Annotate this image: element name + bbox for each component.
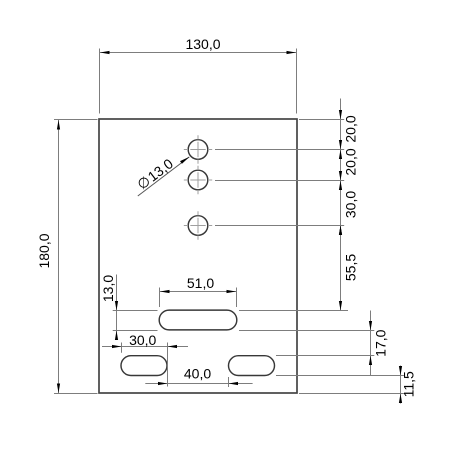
dimension 51,0 (slot S1 length) arrow left [160,290,170,293]
hole H3 center mark [184,211,212,239]
dimension 13,0 (slot S1 height) line [116,275,118,339]
slot S2 (bottom left slot) [121,356,167,376]
svg-text:130,0: 130,0 [185,36,220,52]
dimension 180,0 extension line bottom [54,393,98,395]
dimension 30,0 (slot S2 length) arrow left [112,345,122,348]
right chain extension line from slot S1 top [239,310,348,312]
svg-text:30,0: 30,0 [129,332,156,348]
hole H1 [188,140,208,160]
dimension 180,0 line [58,120,60,394]
svg-text:20,0: 20,0 [343,148,359,175]
dimension 20,0 (H1 to H2) arrow lower [339,181,342,191]
hole H2 [188,170,208,190]
svg-text:17,0: 17,0 [373,329,389,356]
dimension 20,0 (top edge to H1) arrow lower [339,150,342,160]
dimension 40,0 (gap S2 to S3) extension line right [228,377,230,387]
dimension 180,0 arrow top [57,120,60,130]
dimension 30,0 (H2 to H3) arrow upper [339,171,342,181]
dimension 30,0 (slot S2 length) arrow right [168,345,178,348]
dimension 180,0 extension line top [54,119,98,121]
dimension 20,0 (H1 to H2) arrow upper [339,140,342,150]
leader diameter 13,0 arrow [180,157,189,164]
svg-text:40,0: 40,0 [184,366,211,382]
svg-text:11,5: 11,5 [401,371,417,397]
dimension 130,0 arrow left [100,51,110,54]
hole H2 center mark [184,166,212,194]
dimension 17,0 (S1 bottom to S3 top) arrow lower [369,356,372,366]
right chain extension line from hole H1 [215,149,344,151]
dimension 40,0 (gap S2 to S3) line [145,383,252,385]
right chain extension line from plate top edge [299,119,344,121]
dimension 130,0 arrow right [287,51,297,54]
right chain extension line from hole H3 [215,225,344,227]
dimension 51,0 (slot S1 length) arrow right [227,290,237,293]
dimension 30,0 (slot S2 length) extension line right (shared with 40,0) [167,343,169,387]
dimension 40,0 (gap S2 to S3) arrow right [229,382,239,385]
dimension 13,0 (slot S1 height) extension line bottom [113,330,158,332]
dimension 51,0 (slot S1 length) extension line left [159,288,161,308]
dimension 11,5 (S3 bottom to plate bottom) extension line upper [276,375,404,377]
slot S1 (large center slot) [159,310,237,330]
right chain dimension line [340,99,342,311]
leader diameter 13,0 line [138,157,190,196]
dimension 51,0 (slot S1 length) extension line right [236,288,238,308]
right chain extension line from hole H2 [215,180,344,182]
dimension 13,0 (slot S1 height) arrow upper [115,301,118,311]
dimension 17,0 (S1 bottom to S3 top) extension line lower [276,355,374,357]
dimension 11,5 (S3 bottom to plate bottom) line [400,366,402,404]
dimension 130,0 line [100,52,297,54]
dimension 130,0 extension line left [99,49,101,114]
svg-text:51,0: 51,0 [187,275,214,291]
svg-text:180,0: 180,0 [36,233,52,268]
dimension 30,0 (slot S2 length) line [102,346,188,348]
dimension 17,0 (S1 bottom to S3 top) line [370,311,372,376]
hole H3 [188,216,208,236]
dimension 55,5 (H3 to slot S1 top) arrow lower [339,301,342,311]
dimension 11,5 (S3 bottom to plate bottom) arrow upper [399,366,402,376]
dimension 13,0 (slot S1 height) extension line top [113,310,158,312]
dimension 51,0 (slot S1 length) line [160,291,237,293]
dimension 30,0 (H2 to H3) arrow lower [339,226,342,236]
dimension 130,0 extension line right [296,49,298,114]
slot S3 (bottom right slot) [229,356,275,376]
dimension 11,5 (S3 bottom to plate bottom) extension line lower [299,393,404,395]
svg-text:30,0: 30,0 [343,191,359,218]
plate outline [99,119,297,393]
hole H1 center mark [184,135,212,163]
dimension 17,0 (S1 bottom to S3 top) extension line upper [239,330,374,332]
dimension 55,5 (H3 to slot S1 top) arrow upper [339,226,342,236]
dimension 17,0 (S1 bottom to S3 top) arrow upper [369,321,372,331]
dimension 40,0 (gap S2 to S3) arrow left [158,382,168,385]
dimension 30,0 (slot S2 length) extension line left [121,343,123,353]
svg-text:20,0: 20,0 [343,115,359,142]
svg-text:55,5: 55,5 [343,254,359,281]
dimension 180,0 arrow bottom [57,384,60,394]
dimension 13,0 (slot S1 height) arrow lower [115,331,118,341]
svg-text:13,0: 13,0 [100,275,116,302]
dimension 20,0 (top edge to H1) arrow upper [339,110,342,120]
dimension 11,5 (S3 bottom to plate bottom) arrow lower [399,394,402,404]
